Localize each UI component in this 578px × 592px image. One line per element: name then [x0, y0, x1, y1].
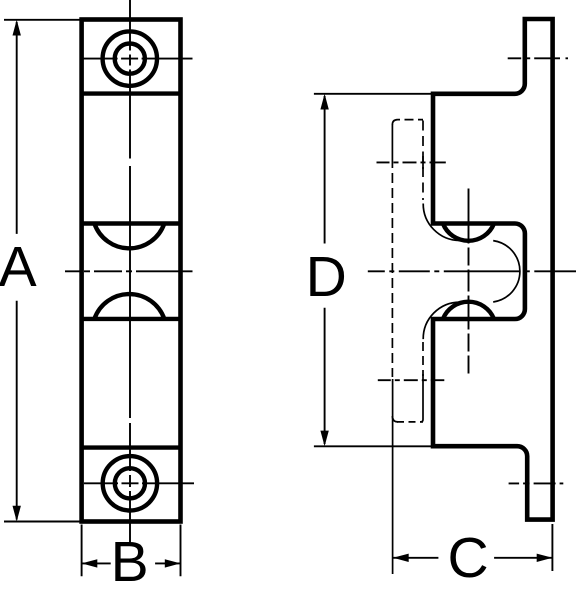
- dim B dimension line: [82, 562, 181, 564]
- dim A arrowheads: [13, 20, 21, 36]
- dome vertical centerline: [468, 189, 470, 374]
- upper bend tangent curve: [423, 204, 460, 241]
- bottom mounting hole outer circle: [103, 456, 157, 510]
- dim C arrowheads: [393, 554, 409, 562]
- hidden line: leaf right edge lower solid: [421, 374, 424, 422]
- hidden tick at upper bend crossing: [422, 156, 424, 169]
- bottom tab hole centerline: [509, 482, 564, 484]
- vertical centerline of front view: [129, 0, 131, 543]
- front view body outline: [82, 20, 181, 522]
- hidden line: leaf left edge upper solid: [391, 124, 393, 168]
- hidden line: leaf left edge (dashed): [391, 173, 393, 377]
- bottom hole horizontal centerline: [84, 482, 194, 484]
- svg-text:C: C: [448, 526, 489, 590]
- main horizontal centerline (front view): [65, 270, 193, 272]
- upper hidden bend centerline: [377, 161, 446, 163]
- upper dome arc (section): [443, 224, 494, 241]
- dim B extension lines: [82, 525, 181, 577]
- edge: top of middle block: [82, 221, 181, 225]
- lower dome arc (section): [443, 302, 494, 319]
- lower bend tangent curve: [423, 302, 460, 339]
- hidden line: leaf right edge lower (dashed): [422, 342, 424, 376]
- bottom mounting hole inner circle: [115, 468, 145, 498]
- hidden line: leaf top edge (dashed): [398, 119, 424, 121]
- svg-text:B: B: [111, 530, 149, 592]
- upper ball notch arc: [94, 224, 164, 249]
- edge: top of bottom block: [82, 445, 181, 449]
- dim D dimension line: [324, 96, 326, 444]
- lower hidden bend centerline: [378, 379, 445, 381]
- edge: bottom of top block: [82, 91, 181, 95]
- top hole horizontal centerline: [82, 58, 193, 60]
- hidden line: leaf bottom-left corner: [392, 416, 398, 422]
- top mounting hole inner circle: [115, 44, 145, 74]
- dim A dimension line: [16, 22, 18, 520]
- hidden line: leaf bottom edge (dashed): [397, 421, 423, 423]
- side view outline (Z-section with tabs and centre boss): [433, 19, 553, 520]
- top tab hole centerline: [508, 57, 569, 59]
- hidden line: leaf top-left corner: [392, 120, 397, 125]
- dome sphere outline arc: [493, 241, 520, 302]
- dim B arrowheads: [82, 559, 98, 567]
- dim D arrowheads: [320, 94, 328, 110]
- lower ball notch arc: [94, 294, 164, 319]
- hidden line: leaf left edge lower solid / dim C extension: [392, 379, 394, 574]
- edge: bottom of middle block: [82, 317, 181, 321]
- top mounting hole outer circle: [103, 31, 157, 85]
- dim D extension lines: [314, 94, 433, 447]
- svg-text:D: D: [306, 245, 347, 309]
- dim A top extension line: [4, 20, 81, 522]
- svg-text:A: A: [0, 235, 37, 299]
- main horizontal centerline (side view): [368, 270, 576, 272]
- dim C right extension line: [551, 524, 553, 571]
- dim C dimension line: [393, 557, 552, 559]
- hidden line: leaf right edge upper (dashed): [422, 121, 424, 201]
